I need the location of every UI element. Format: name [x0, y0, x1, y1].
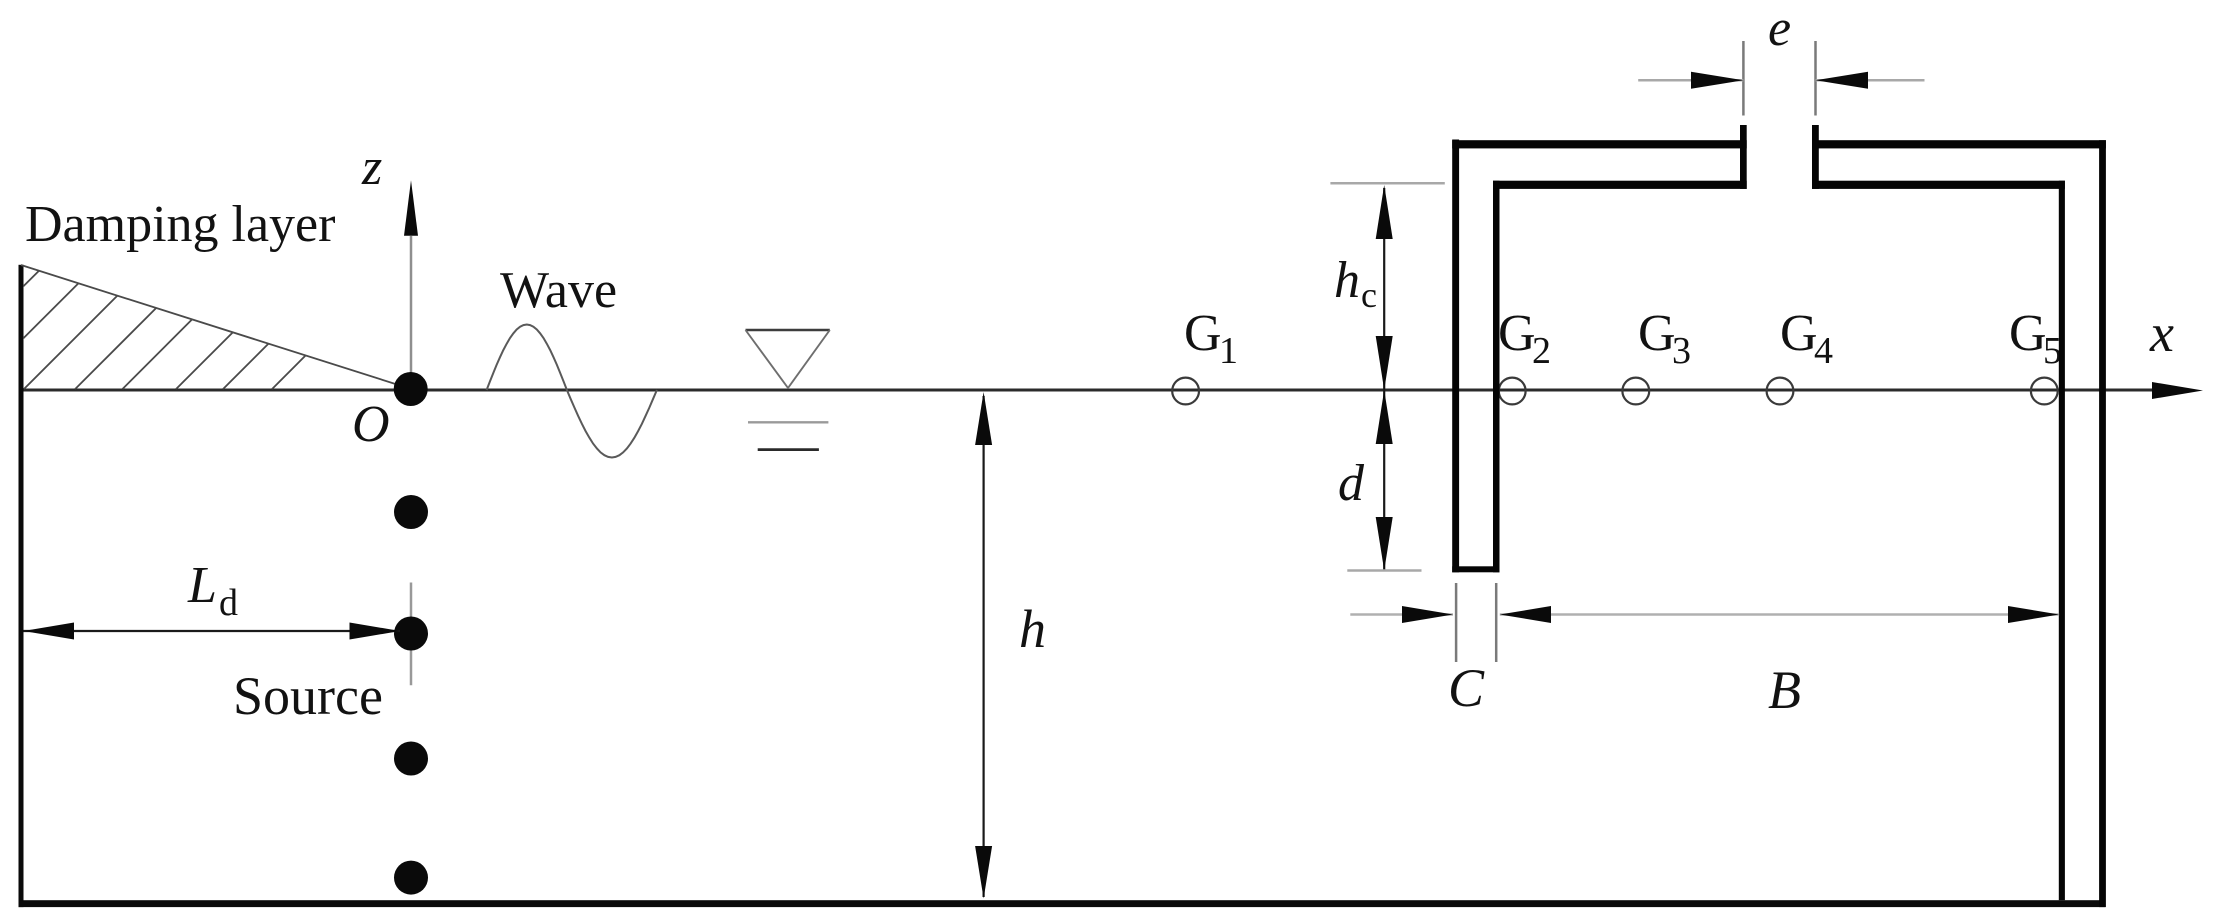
OWC chamber front wall inner line [1493, 181, 1500, 573]
svg-text:O: O [352, 396, 390, 453]
svg-text:Damping layer: Damping layer [25, 196, 335, 253]
svg-text:L: L [187, 557, 217, 614]
wire water surface line / x axis [21, 382, 2203, 399]
svg-text:Source: Source [233, 666, 383, 726]
water level symbol (nabla) [746, 330, 830, 450]
dimension hc extension line [1330, 182, 1444, 185]
OWC chamber rear wall outer line [2099, 140, 2106, 907]
svg-text:x: x [2149, 303, 2174, 363]
OWC chamber rear wall inner line [2059, 181, 2065, 901]
gauge G4 circle [1767, 378, 1794, 405]
dimension d extension line [1347, 569, 1421, 572]
svg-text:G: G [2009, 305, 2047, 362]
gauge G2 circle [1499, 378, 1526, 405]
wire tank left wall [19, 265, 24, 907]
OWC chamber roof outer right [1812, 140, 2106, 148]
gauge G3 circle [1622, 378, 1649, 405]
svg-text:C: C [1448, 658, 1485, 718]
dimension e arrows [1638, 72, 1924, 89]
node origin O dot [394, 372, 428, 406]
svg-text:d: d [1338, 455, 1365, 512]
svg-text:2: 2 [1532, 330, 1551, 372]
svg-text:1: 1 [1219, 330, 1238, 372]
svg-text:4: 4 [1814, 330, 1833, 372]
z axis [404, 180, 418, 389]
svg-text:h: h [1019, 599, 1046, 659]
dimension Ld arrow [24, 623, 401, 640]
svg-text:c: c [1361, 275, 1377, 315]
source vertical centerline [410, 583, 413, 686]
svg-text:h: h [1334, 252, 1360, 309]
damping layer triangle [21, 265, 408, 389]
svg-text:G: G [1638, 305, 1676, 362]
svg-text:G: G [1184, 305, 1222, 362]
dimension C ticks [1455, 583, 1458, 662]
svg-text:G: G [1498, 305, 1536, 362]
svg-text:d: d [219, 582, 238, 624]
svg-text:B: B [1768, 660, 1801, 720]
dimension hc arrow [1376, 185, 1393, 390]
dimension B arrow [1500, 606, 2059, 623]
wire tank floor [19, 900, 2106, 907]
dimension h arrow [975, 392, 992, 899]
OWC chamber front wall outer line [1452, 140, 1459, 573]
OWC chimney right wall [1812, 125, 1819, 189]
svg-text:e: e [1768, 0, 1791, 57]
OWC chamber roof inner left [1493, 181, 1747, 189]
svg-text:Wave: Wave [500, 262, 617, 319]
OWC chamber front wall bottom cap [1452, 566, 1499, 572]
svg-text:z: z [361, 139, 382, 196]
wave sine curve [487, 325, 657, 458]
dimension C arrow [1350, 606, 1453, 623]
source dot 3 [394, 742, 428, 776]
svg-text:G: G [1780, 305, 1818, 362]
dimension e ticks [1742, 41, 1745, 116]
svg-text:3: 3 [1672, 330, 1691, 372]
gauge G5 circle [2031, 378, 2058, 405]
OWC chamber roof outer left [1452, 140, 1747, 148]
OWC chimney left wall [1740, 125, 1747, 189]
source dot 4 [394, 861, 428, 895]
OWC chamber roof inner right [1812, 181, 2065, 189]
dimension d arrow [1376, 390, 1393, 571]
source dot 2 [394, 617, 428, 651]
source dot 1 (on water line is O) [394, 495, 428, 529]
gauge G1 circle [1172, 378, 1199, 405]
